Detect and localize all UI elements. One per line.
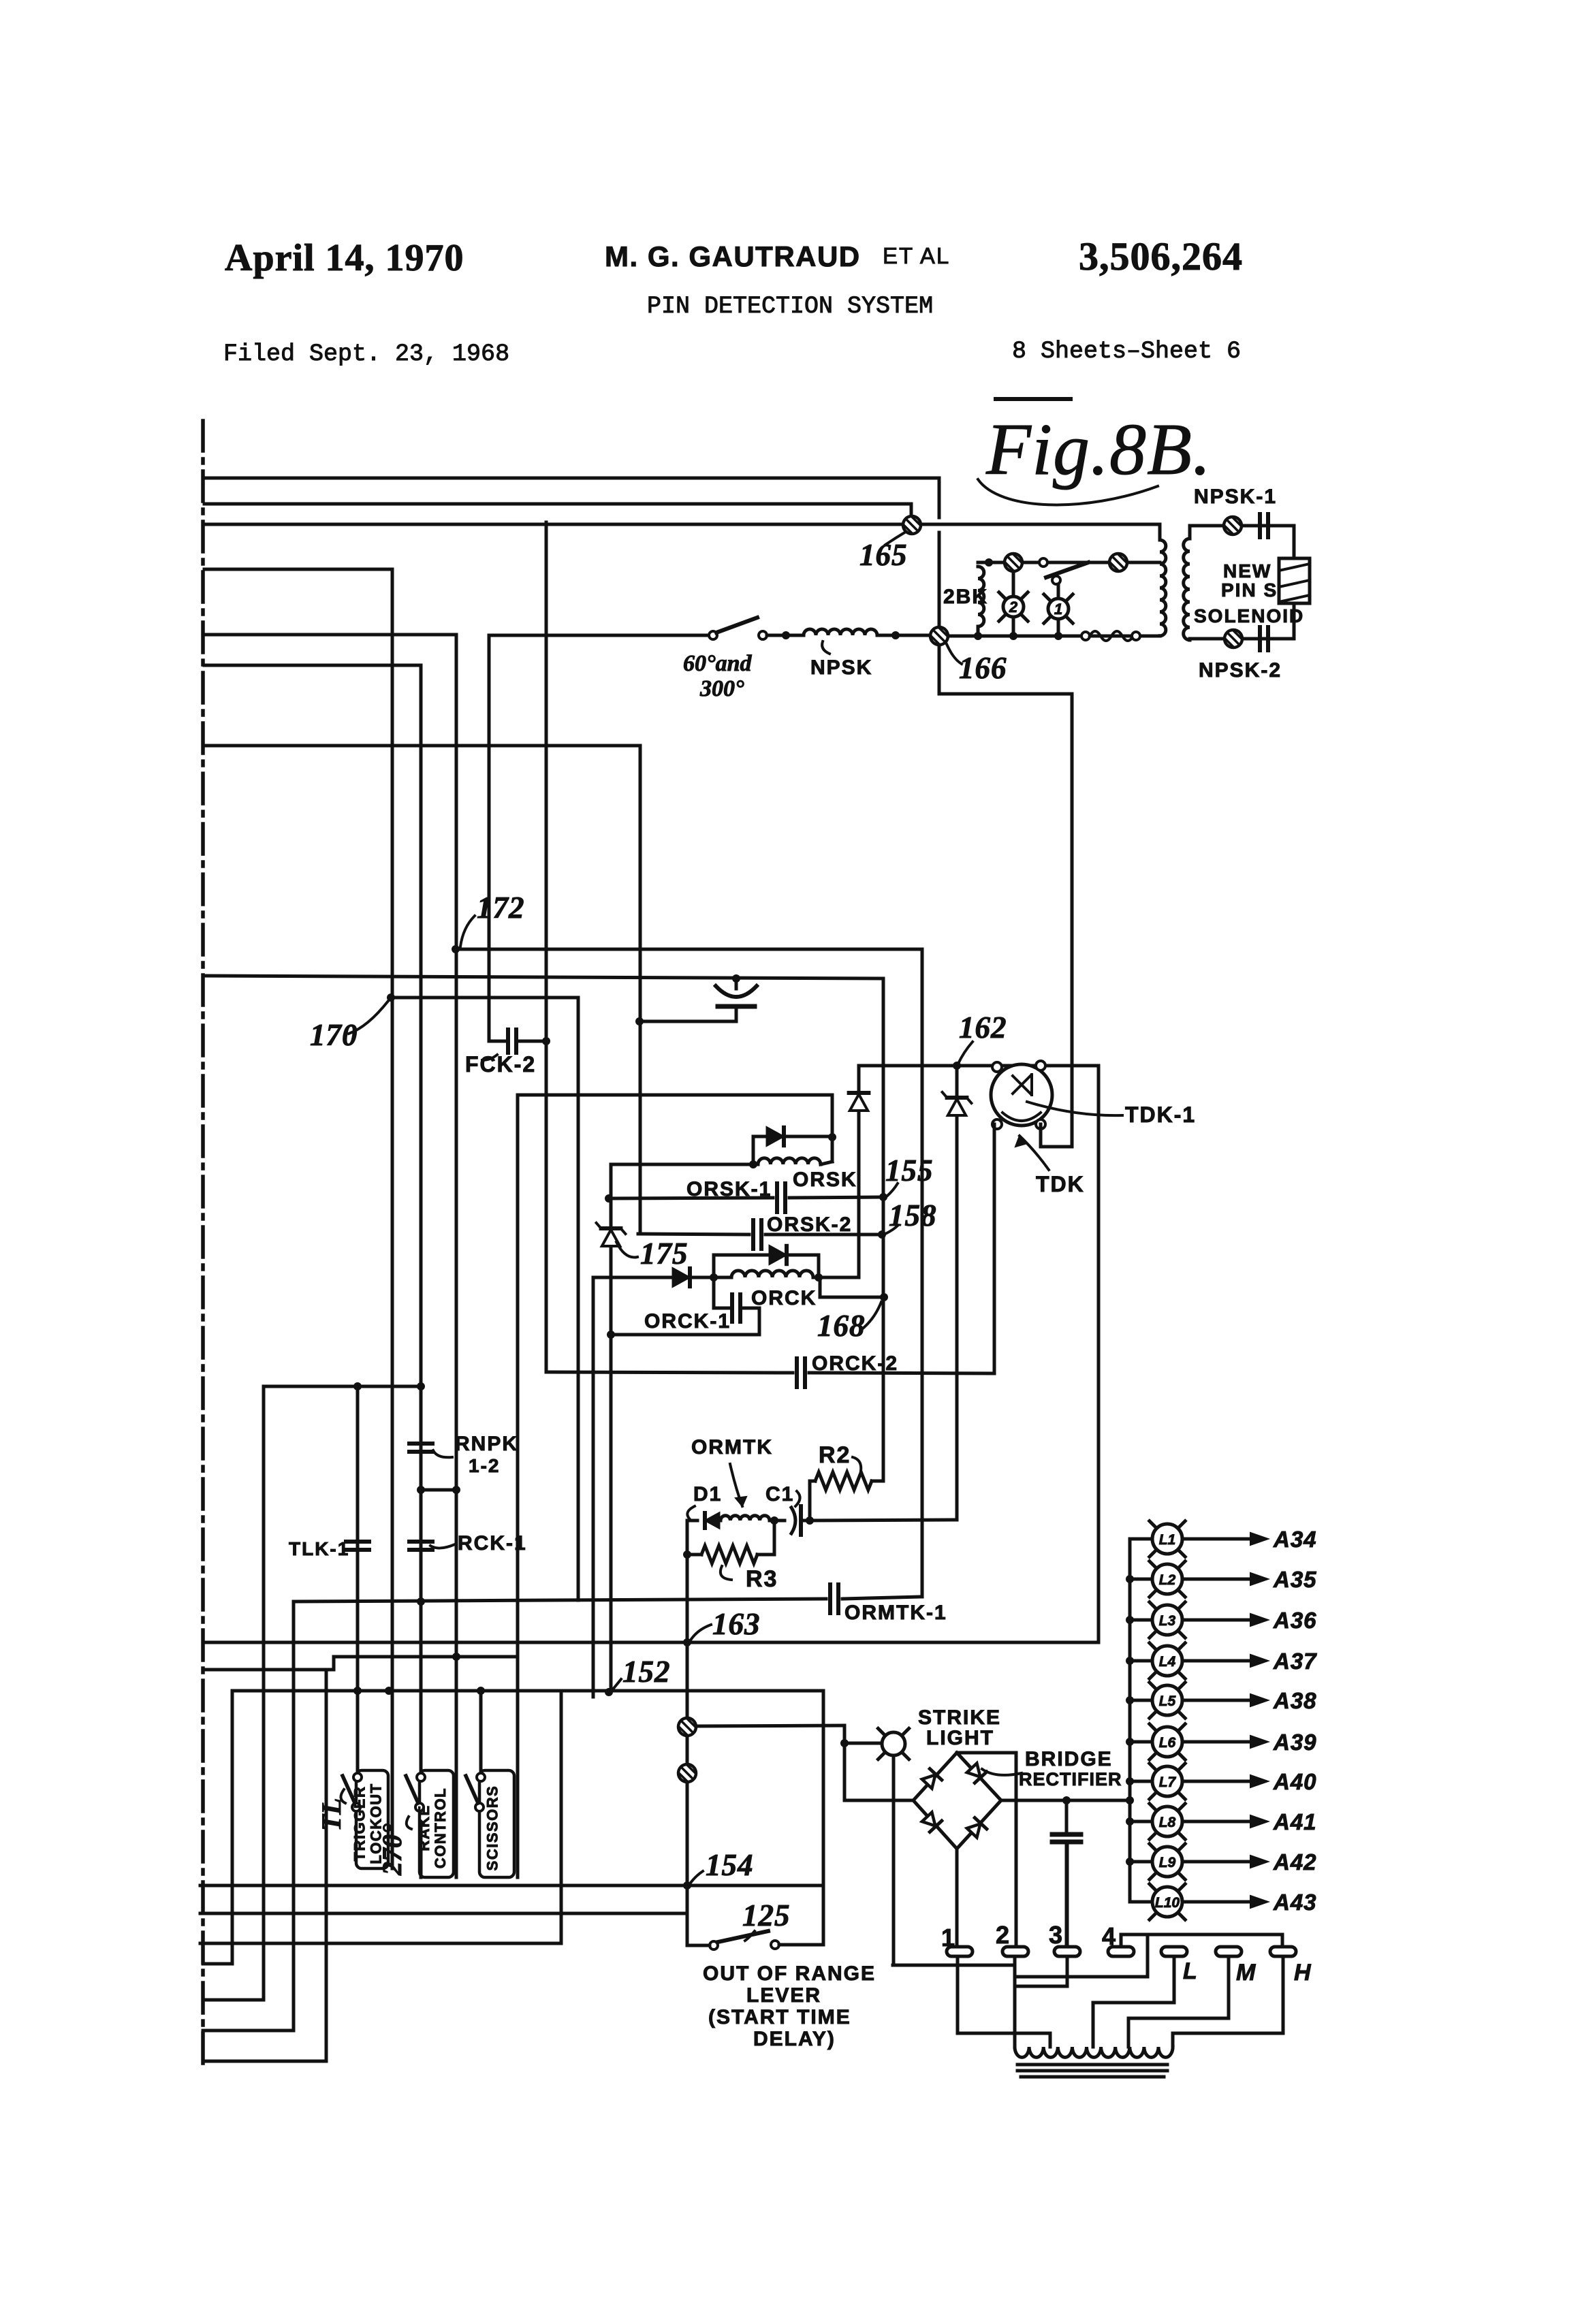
svg-text:RCK-1: RCK-1: [458, 1532, 527, 1555]
svg-text:165: 165: [859, 538, 908, 572]
svg-text:SOLENOID: SOLENOID: [1194, 605, 1304, 626]
svg-text:A37: A37: [1273, 1649, 1317, 1674]
svg-text:ORCK-2: ORCK-2: [812, 1352, 898, 1375]
svg-text:A43: A43: [1273, 1890, 1317, 1915]
svg-text:60°and: 60°and: [683, 651, 753, 676]
svg-text:LIGHT: LIGHT: [926, 1727, 994, 1749]
svg-text:A42: A42: [1273, 1849, 1317, 1875]
svg-text:TL: TL: [316, 1798, 347, 1832]
svg-text:L2: L2: [1159, 1572, 1176, 1588]
svg-text:300°: 300°: [699, 676, 744, 701]
svg-text:162: 162: [959, 1010, 1007, 1045]
svg-text:1: 1: [1054, 601, 1062, 618]
svg-text:R2: R2: [819, 1442, 851, 1468]
svg-text:Filed Sept. 23, 1968: Filed Sept. 23, 1968: [223, 340, 509, 368]
svg-text:PIN S: PIN S: [1221, 579, 1278, 601]
svg-text:ORSK-1: ORSK-1: [686, 1178, 772, 1200]
svg-text:PIN DETECTION SYSTEM: PIN DETECTION SYSTEM: [647, 293, 933, 320]
svg-text:April 14, 1970: April 14, 1970: [225, 237, 464, 279]
svg-text:154: 154: [706, 1848, 754, 1882]
svg-text:RNPK: RNPK: [455, 1433, 518, 1455]
svg-text:CONTROL: CONTROL: [432, 1787, 449, 1868]
svg-text:8 Sheets–Sheet 6: 8 Sheets–Sheet 6: [1012, 338, 1241, 365]
svg-text:2: 2: [1009, 599, 1018, 616]
svg-text:155: 155: [885, 1153, 934, 1188]
svg-text:L8: L8: [1159, 1815, 1176, 1830]
svg-text:H: H: [1294, 1960, 1312, 1986]
svg-text:FCK-2: FCK-2: [465, 1052, 536, 1077]
svg-text:(START TIME: (START TIME: [708, 2006, 851, 2028]
svg-text:1-2: 1-2: [469, 1455, 500, 1476]
svg-text:A39: A39: [1273, 1730, 1317, 1755]
svg-text:A41: A41: [1273, 1809, 1317, 1834]
svg-text:ORSK: ORSK: [793, 1168, 857, 1191]
svg-text:NPSK: NPSK: [810, 656, 872, 679]
svg-text:163: 163: [712, 1607, 761, 1641]
svg-text:NPSK-1: NPSK-1: [1194, 486, 1277, 508]
svg-text:1: 1: [941, 1924, 956, 1952]
svg-text:ORMTK: ORMTK: [691, 1436, 773, 1459]
svg-text:D1: D1: [693, 1483, 722, 1506]
svg-text:170: 170: [310, 1018, 358, 1052]
svg-text:L3: L3: [1159, 1613, 1176, 1629]
svg-text:125: 125: [742, 1898, 791, 1932]
svg-text:166: 166: [959, 651, 1007, 685]
svg-text:Fig.8B.: Fig.8B.: [985, 409, 1212, 490]
svg-text:TDK: TDK: [1036, 1172, 1085, 1196]
svg-text:L1: L1: [1159, 1532, 1176, 1548]
svg-text:TRIGGER: TRIGGER: [351, 1786, 368, 1862]
svg-text:R3: R3: [746, 1566, 778, 1592]
svg-text:L4: L4: [1159, 1654, 1176, 1670]
svg-text:3,506,264: 3,506,264: [1079, 234, 1243, 278]
svg-text:STRIKE: STRIKE: [918, 1706, 1001, 1729]
svg-text:4: 4: [1102, 1922, 1117, 1950]
svg-text:172: 172: [477, 891, 525, 925]
svg-text:3: 3: [1049, 1921, 1064, 1949]
svg-text:ORCK: ORCK: [751, 1287, 817, 1309]
svg-text:M: M: [1236, 1960, 1257, 1986]
svg-text:2: 2: [996, 1921, 1011, 1949]
svg-text:2BK: 2BK: [943, 586, 988, 608]
svg-text:OUT OF RANGE: OUT OF RANGE: [703, 1962, 876, 1985]
svg-text:ORSK-2: ORSK-2: [767, 1213, 852, 1236]
svg-text:A34: A34: [1273, 1527, 1317, 1552]
svg-text:BRIDGE: BRIDGE: [1025, 1748, 1113, 1770]
svg-text:L6: L6: [1159, 1735, 1176, 1751]
svg-text:A40: A40: [1273, 1769, 1317, 1794]
svg-text:RAKE: RAKE: [415, 1804, 432, 1851]
svg-text:ORCK-1: ORCK-1: [644, 1310, 731, 1333]
svg-text:ORMTK-1: ORMTK-1: [844, 1602, 947, 1624]
svg-text:270°: 270°: [377, 1824, 407, 1876]
svg-text:L7: L7: [1159, 1774, 1177, 1790]
svg-text:A38: A38: [1273, 1688, 1317, 1713]
svg-text:DELAY): DELAY): [753, 2028, 836, 2050]
svg-text:TLK-1: TLK-1: [289, 1538, 349, 1559]
svg-text:L: L: [1183, 1958, 1199, 1984]
svg-text:RECTIFIER: RECTIFIER: [1019, 1769, 1122, 1789]
svg-text:C1: C1: [765, 1483, 794, 1506]
svg-text:175: 175: [640, 1237, 689, 1271]
svg-text:LEVER: LEVER: [746, 1984, 821, 2007]
svg-text:SCISSORS: SCISSORS: [484, 1785, 501, 1871]
svg-text:A36: A36: [1273, 1608, 1317, 1633]
svg-text:NPSK-2: NPSK-2: [1199, 659, 1282, 682]
svg-text:168: 168: [817, 1309, 866, 1343]
svg-text:L5: L5: [1159, 1693, 1176, 1709]
svg-text:NEW: NEW: [1223, 560, 1271, 582]
svg-text:152: 152: [622, 1655, 671, 1689]
svg-text:A35: A35: [1273, 1567, 1317, 1592]
svg-text:ET AL: ET AL: [883, 243, 950, 268]
svg-text:L10: L10: [1155, 1895, 1180, 1911]
svg-text:M. G. GAUTRAUD: M. G. GAUTRAUD: [605, 240, 861, 272]
svg-text:L9: L9: [1159, 1855, 1176, 1871]
svg-text:TDK-1: TDK-1: [1125, 1102, 1196, 1127]
